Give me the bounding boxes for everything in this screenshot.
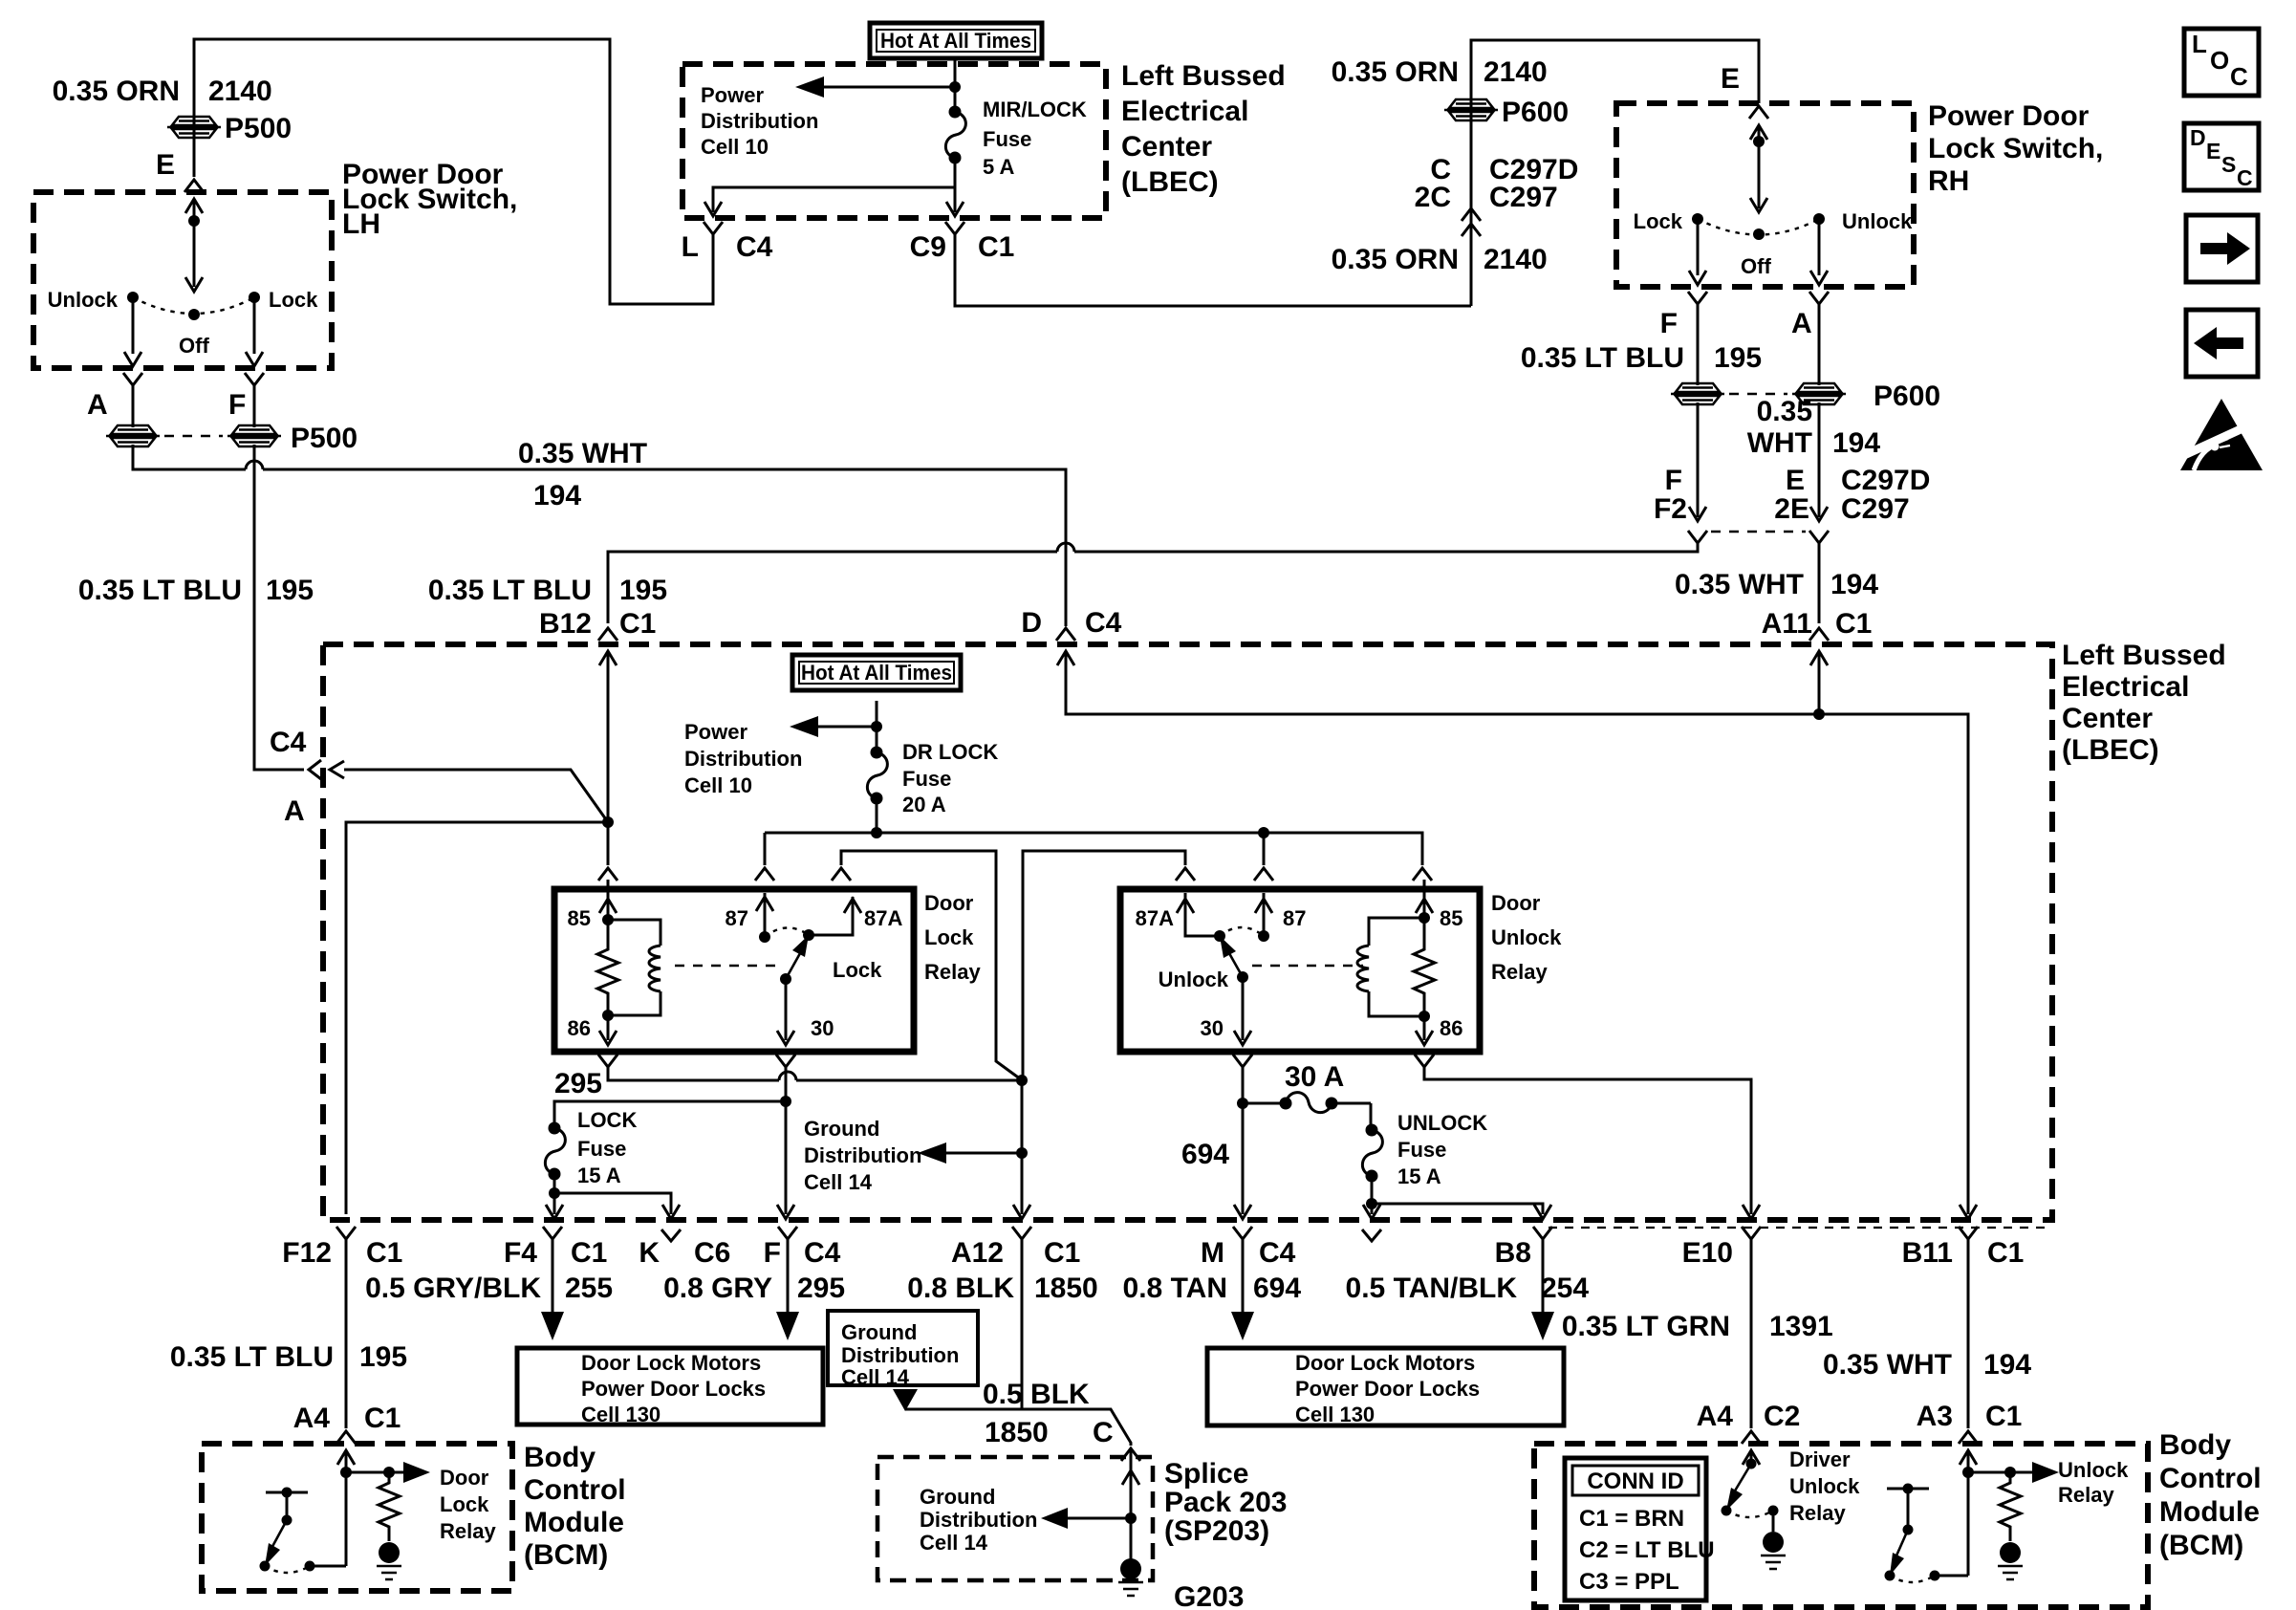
connector pin 87A (unlock relay) [1176, 868, 1195, 881]
svg-text:Distribution: Distribution [920, 1508, 1037, 1532]
svg-text:0.35 WHT: 0.35 WHT [1675, 569, 1804, 600]
svg-text:Body: Body [524, 1442, 596, 1473]
label 0.5 BLK / 1850 C [983, 1379, 1114, 1448]
svg-text:0.35 LT BLU: 0.35 LT BLU [1521, 342, 1684, 374]
svg-text:M: M [1201, 1237, 1224, 1269]
svg-text:85: 85 [1440, 906, 1462, 930]
unlock relay node (BCM) [1967, 1450, 1970, 1576]
wire M to right motor box [1242, 1239, 1245, 1312]
svg-text:Cell 10: Cell 10 [684, 773, 752, 797]
switch arm (unlock relay) [1237, 971, 1248, 983]
relay box Door Lock Relay [554, 889, 914, 1052]
svg-text:DR LOCK: DR LOCK [902, 740, 998, 764]
wire: 0.35 WHT 194 from A pin across page to D-C4 drop [133, 445, 1066, 626]
label Power Door Lock Switch, LH [342, 159, 517, 240]
svg-text:0.35: 0.35 [1757, 396, 1812, 427]
svg-text:195: 195 [266, 575, 314, 606]
svg-text:254: 254 [1541, 1273, 1589, 1304]
wire B11 down to BCM A3-C1 [1967, 1239, 1970, 1428]
svg-text:Distribution: Distribution [684, 747, 802, 771]
Left Bussed Electrical Center dashed box (main) [323, 644, 2052, 1220]
wire: Lock output down to box edge [253, 297, 256, 354]
svg-text:194: 194 [1983, 1349, 2031, 1381]
svg-text:Cell 130: Cell 130 [581, 1403, 661, 1426]
wire: LOCK fuse output to F4 and K [554, 1174, 671, 1214]
svg-text:Door Lock Motors: Door Lock Motors [1295, 1351, 1475, 1375]
connector pin A11 at LBEC top [1809, 628, 1829, 641]
svg-text:Cell 10: Cell 10 [701, 135, 769, 159]
connector C297 (F2) [1689, 507, 1706, 521]
connector pin A at LBEC left edge (C4) [309, 760, 321, 779]
svg-text:Fuse: Fuse [902, 767, 951, 791]
resistor (lock relay coil suppressor) [597, 920, 618, 1015]
svg-text:Off: Off [1741, 254, 1771, 278]
svg-text:Hot At All Times: Hot At All Times [801, 661, 952, 685]
wire: ORN vertical from P500 to LH switch E pin [193, 127, 196, 177]
connector pin F4/C1 [543, 1227, 562, 1239]
connector pin 87 (unlock relay) [1254, 868, 1273, 881]
svg-text:(LBEC): (LBEC) [1121, 166, 1219, 198]
svg-text:295: 295 [554, 1068, 602, 1099]
svg-text:B11: B11 [1902, 1237, 1953, 1269]
wire: RH lock signal 195 to B12 column [608, 543, 1698, 623]
dashed tie between P500 halves [164, 435, 223, 438]
fuse UNLOCK 15 A [1370, 1103, 1373, 1130]
connector pin B8 [1533, 1227, 1552, 1239]
label 0.35 LT BLU | 195 (RH lock wire) [1521, 342, 1762, 374]
svg-text:30 A: 30 A [1285, 1061, 1344, 1093]
Hot At All Times box (main) [792, 655, 961, 690]
label 0.35 WHT / 194 (left) [518, 438, 647, 511]
svg-text:MIR/LOCK: MIR/LOCK [983, 98, 1087, 121]
svg-text:L: L [682, 231, 699, 263]
coil (lock relay) [608, 920, 661, 1015]
svg-text:Door: Door [1491, 891, 1541, 915]
label Splice Pack 203 (SP203) [1164, 1458, 1287, 1547]
connector pin F12/C1 [336, 1227, 356, 1239]
svg-text:Cell 130: Cell 130 [1295, 1403, 1375, 1426]
svg-text:5 A: 5 A [983, 155, 1015, 179]
svg-text:1850: 1850 [985, 1417, 1049, 1448]
svg-text:255: 255 [565, 1273, 613, 1304]
connector pin C9 / C1 [945, 222, 964, 234]
svg-text:0.35 WHT: 0.35 WHT [518, 438, 647, 469]
svg-text:C: C [1093, 1417, 1114, 1448]
svg-text:F12: F12 [282, 1237, 332, 1269]
svg-text:C3 = PPL: C3 = PPL [1579, 1569, 1679, 1595]
label Body Control Module (BCM) right [2159, 1429, 2262, 1561]
svg-text:Door: Door [440, 1466, 489, 1490]
ground G203 [1118, 1558, 1143, 1596]
connector pin B11/C1 [1959, 1227, 1978, 1239]
svg-text:Hot At All Times: Hot At All Times [880, 29, 1031, 53]
svg-text:C1: C1 [571, 1237, 607, 1269]
LH switch common wire with junction and arrow to Off [193, 199, 196, 287]
svg-text:Fuse: Fuse [1397, 1138, 1446, 1162]
arrow: Power Distribution Cell 10 tap (main) [818, 726, 877, 729]
svg-text:WHT: WHT [1747, 427, 1812, 459]
LH switch Unlock contact [127, 292, 139, 303]
svg-text:C1: C1 [364, 1403, 401, 1434]
svg-text:Body: Body [2159, 1429, 2231, 1461]
svg-text:Power Door Locks: Power Door Locks [1295, 1377, 1480, 1401]
switch (BCM door lock relay) [266, 1491, 308, 1494]
svg-text:0.5 GRY/BLK: 0.5 GRY/BLK [365, 1273, 541, 1304]
svg-text:195: 195 [619, 575, 667, 606]
svg-text:30: 30 [811, 1016, 834, 1040]
fuse LOCK 15 A [545, 1122, 565, 1181]
svg-text:C1: C1 [1044, 1237, 1080, 1269]
svg-text:C4: C4 [1085, 607, 1122, 639]
svg-text:C: C [2230, 62, 2248, 91]
coil (unlock relay) [1369, 918, 1424, 1016]
label Power Door Lock Switch, RH [1928, 100, 2103, 197]
wire: RH unlock signal 194 down to A11 [1818, 543, 1821, 623]
svg-text:Relay: Relay [2058, 1483, 2114, 1507]
svg-text:15 A: 15 A [1397, 1164, 1441, 1188]
resistor to ground (BCM lock relay) [379, 1472, 400, 1541]
svg-text:(BCM): (BCM) [524, 1539, 608, 1571]
svg-text:(LBEC): (LBEC) [2062, 734, 2159, 766]
svg-text:Unlock: Unlock [2058, 1458, 2129, 1482]
label 0.5 GRY/BLK | 255 [365, 1273, 613, 1304]
wire contact to ground (driver unlock relay) [1772, 1511, 1775, 1532]
wire: D unlock signal down and across to B11 [1066, 651, 1968, 1214]
Splice Pack 203 dashed box [877, 1457, 1153, 1580]
svg-text:0.5 TAN/BLK: 0.5 TAN/BLK [1346, 1273, 1518, 1304]
junction node ground collector [1016, 1075, 1028, 1086]
svg-text:87: 87 [726, 906, 748, 930]
svg-text:C297: C297 [1489, 182, 1558, 213]
fuse MIR/LOCK 5 A [945, 106, 965, 164]
CONN ID table [1565, 1458, 1706, 1600]
connector C297 inline double chevron [1462, 208, 1481, 221]
svg-text:Fuse: Fuse [983, 127, 1031, 151]
connector P500 (A wire) [106, 425, 160, 446]
box Ground Distribution Cell 14 (mid) [828, 1311, 978, 1385]
svg-text:S: S [2221, 152, 2236, 177]
svg-text:E: E [1786, 465, 1805, 496]
Power Door Lock Switch LH dashed box [33, 192, 332, 368]
svg-text:Ground: Ground [804, 1117, 879, 1141]
svg-text:Unlock: Unlock [1842, 209, 1913, 233]
svg-text:O: O [2210, 46, 2229, 75]
wire to resistor and arrow [346, 1471, 405, 1474]
svg-text:2E: 2E [1774, 493, 1809, 525]
svg-text:E10: E10 [1682, 1237, 1733, 1269]
svg-text:C1: C1 [366, 1237, 402, 1269]
connector P500 (E wire) [167, 117, 221, 138]
pin F connector below RH box [1688, 292, 1707, 304]
svg-text:295: 295 [797, 1273, 845, 1304]
svg-text:0.35 LT BLU: 0.35 LT BLU [170, 1341, 334, 1373]
label 0.35 LT GRN | 1391 [1562, 1311, 1833, 1342]
svg-text:0.35 WHT: 0.35 WHT [1823, 1349, 1952, 1381]
svg-text:C297: C297 [1841, 493, 1910, 525]
LH switch Off contact [188, 309, 200, 320]
svg-text:E: E [2206, 139, 2220, 163]
svg-text:C4: C4 [270, 727, 307, 758]
svg-text:Control: Control [2159, 1463, 2262, 1494]
moving contact dashed arc (lock relay) [765, 927, 809, 937]
pin 85 entry and resistor (unlock relay) [1423, 880, 1426, 918]
dashed actuation link (unlock relay) [1252, 965, 1363, 968]
label 0.35 ORN | 2140 (RH lower) [1332, 244, 1548, 275]
svg-text:C4: C4 [804, 1237, 841, 1269]
svg-text:C4: C4 [736, 231, 773, 263]
wire: ORN riser to RH switch E [1471, 40, 1759, 306]
label A3 | C1 (right BCM) [1917, 1401, 2023, 1432]
wire: unlock relay 87A pickup [1023, 851, 1185, 1079]
svg-text:K: K [639, 1237, 660, 1269]
svg-text:Lock: Lock [833, 958, 882, 982]
arrow: Ground Distribution Cell 14 tap (SP203) [1125, 1512, 1137, 1524]
svg-text:P600: P600 [1502, 97, 1569, 128]
svg-text:Unlock: Unlock [1159, 968, 1229, 991]
svg-text:F: F [1660, 308, 1678, 339]
svg-text:(BCM): (BCM) [2159, 1530, 2243, 1561]
svg-text:Lock: Lock [924, 925, 974, 949]
connector pin K/C6 (stub) [661, 1229, 681, 1241]
junction node lock signal [602, 816, 614, 828]
svg-text:P600: P600 [1874, 381, 1940, 412]
svg-text:87: 87 [1283, 906, 1306, 930]
relay box Door Unlock Relay [1120, 889, 1480, 1052]
connector pin A4 into BCM right [1742, 1431, 1761, 1444]
svg-text:Distribution: Distribution [701, 109, 818, 133]
connector pin C into splice pack [1121, 1448, 1140, 1461]
wire: branch to LOCK fuse [554, 1101, 786, 1128]
svg-text:Lock: Lock [440, 1492, 489, 1516]
svg-text:Door: Door [924, 891, 974, 915]
wire hot feed to DR LOCK fuse [876, 701, 878, 752]
dashed actuation link (lock relay) [675, 965, 776, 968]
connector pin A12/C1 [1012, 1227, 1031, 1239]
label 0.5 TAN/BLK | 254 [1346, 1273, 1590, 1304]
connector pin B12 at LBEC top [598, 628, 617, 641]
svg-text:D: D [1021, 607, 1042, 639]
svg-text:86: 86 [1440, 1016, 1462, 1040]
box Door Lock Motors (left) [517, 1348, 823, 1425]
fuse DR LOCK 20 A [867, 747, 887, 805]
connector pin 85 (lock relay) [598, 868, 617, 881]
junction node lock fuse tap [780, 1096, 791, 1107]
wire: unlock relay 86 to E10 [1415, 1055, 1434, 1067]
svg-text:Power: Power [701, 83, 764, 107]
svg-text:CONN ID: CONN ID [1587, 1469, 1683, 1494]
svg-text:Distribution: Distribution [804, 1143, 921, 1167]
svg-text:C1: C1 [1835, 608, 1872, 640]
svg-text:Distribution: Distribution [841, 1343, 959, 1367]
junction node power distribution tap (main) [871, 721, 882, 732]
connector pin 87A (lock relay) [832, 868, 851, 881]
connector pin 85 (unlock relay) [1413, 868, 1432, 881]
label Door Lock Relay (BCM) [440, 1466, 496, 1543]
wire F to left motor box [787, 1239, 790, 1312]
svg-text:P500: P500 [225, 113, 292, 144]
pin A connector below RH box [1809, 292, 1829, 304]
wire: L output (joins ORN loop) [712, 234, 715, 304]
resistor to ground (BCM unlock relay) [2000, 1472, 2021, 1541]
wire A12 ground to splice pack [905, 1239, 1131, 1446]
label 0.35 LT BLU | 195 (F12 wire) [170, 1341, 407, 1373]
label Left Bussed Electrical Center (LBEC) main [2062, 640, 2226, 766]
wire: Unlock output down to box edge [132, 297, 135, 354]
svg-text:Relay: Relay [924, 960, 981, 984]
svg-text:G203: G203 [1174, 1581, 1244, 1610]
svg-text:RH: RH [1928, 165, 1969, 197]
svg-text:LOCK: LOCK [577, 1108, 637, 1132]
moving contact dashed arc (unlock relay) [1220, 927, 1264, 936]
svg-text:C6: C6 [694, 1237, 730, 1269]
svg-text:C1: C1 [1987, 1237, 2024, 1269]
label Unlock Relay (BCM) [2058, 1458, 2129, 1507]
label Ground Distribution Cell 14 (LBEC) [804, 1117, 921, 1194]
icon arrow left [2186, 310, 2258, 377]
svg-text:15 A: 15 A [577, 1164, 621, 1187]
switch wiper dashed arc LH [133, 297, 254, 314]
pin 30 exit [785, 979, 788, 1040]
connector P600 (A wire) [1792, 383, 1846, 404]
svg-text:C1: C1 [1985, 1401, 2022, 1432]
pin 87 contact (unlock) [1263, 893, 1266, 936]
junction node at power distribution tap [949, 81, 961, 93]
label 0.35 WHT | 194 stacked (RH unlock wire) [1747, 396, 1881, 459]
wire: ground collector down to A12 [1021, 1080, 1024, 1214]
svg-text:LH: LH [342, 208, 380, 240]
svg-text:2140: 2140 [1484, 244, 1548, 275]
svg-text:Relay: Relay [1491, 960, 1548, 984]
svg-text:C4: C4 [1259, 1237, 1296, 1269]
wire A4 into door lock relay node [345, 1450, 348, 1566]
labels F/F2 E/2E C297D/C297 [1654, 465, 1930, 525]
svg-text:C: C [2237, 165, 2253, 190]
label 0.35 WHT | 194 (B11 wire) [1823, 1349, 2031, 1381]
wire: C4-A arrow line to lock node [344, 770, 608, 822]
pin 87A contact and riser [803, 929, 814, 941]
label 0.35 LT BLU | 195 (B12 column) [428, 575, 667, 606]
wire: LH lock output F continues down [254, 445, 304, 770]
svg-text:C2 = LT BLU: C2 = LT BLU [1579, 1537, 1715, 1563]
svg-text:Electrical: Electrical [1121, 96, 1248, 127]
label A11 | C1 [1762, 608, 1873, 640]
svg-text:Cell 14: Cell 14 [804, 1170, 873, 1194]
wire: ORN 2140 feed loop from LBEC C4-L down to LH switch E [194, 39, 713, 304]
wire: lock node to BCM F12 column [346, 822, 608, 1214]
switch arm (lock relay) [780, 973, 791, 985]
wire: unlock relay 30 output [1233, 1055, 1252, 1067]
connector P500 (F wire) [227, 425, 281, 446]
svg-text:2140: 2140 [1484, 56, 1548, 88]
label 0.35 ORN | 2140 (LH) [53, 76, 272, 107]
svg-text:Lock: Lock [1634, 209, 1683, 233]
box Door Lock Motors (right) [1207, 1348, 1564, 1425]
svg-text:A: A [1791, 308, 1812, 339]
svg-text:86: 86 [568, 1016, 591, 1040]
svg-text:Door Lock Motors: Door Lock Motors [581, 1351, 761, 1375]
Body Control Module dashed box (left) [202, 1444, 512, 1591]
label 0.35 WHT | 194 (A11 column) [1675, 569, 1878, 600]
svg-text:L: L [2192, 30, 2207, 58]
svg-text:Electrical: Electrical [2062, 671, 2189, 703]
svg-text:Splice: Splice [1164, 1458, 1248, 1490]
svg-text:E: E [1721, 63, 1740, 95]
icon ESD warning triangle [2172, 399, 2264, 470]
pin F connector below LH box [245, 373, 264, 385]
svg-text:194: 194 [1832, 427, 1880, 459]
svg-text:F4: F4 [504, 1237, 537, 1269]
svg-text:Relay: Relay [1789, 1501, 1846, 1525]
svg-text:Module: Module [2159, 1496, 2260, 1528]
connector pin M/C4 [1233, 1227, 1252, 1239]
connector P600 (ORN wire) [1444, 99, 1498, 120]
svg-text:A3: A3 [1917, 1401, 1953, 1432]
svg-text:0.8 BLK: 0.8 BLK [907, 1273, 1014, 1304]
dashed tie between P600 halves [1729, 393, 1787, 396]
connector pin A3 into BCM right [1959, 1431, 1978, 1444]
label D | C4 [1021, 607, 1121, 639]
svg-text:F2: F2 [1654, 493, 1687, 525]
wire B8 to right motor box [1542, 1239, 1545, 1312]
pin 85 entry arrow [607, 880, 610, 920]
svg-text:Relay: Relay [440, 1519, 496, 1543]
wires to P600 row [1698, 304, 1819, 385]
svg-text:0.35 ORN: 0.35 ORN [1332, 56, 1459, 88]
label 0.35 LT BLU | 195 (LH lock wire) [78, 575, 314, 606]
svg-text:87A: 87A [1136, 906, 1174, 930]
Body Control Module dashed box (right) [1534, 1444, 2148, 1607]
switch wiper dashed arc RH [1698, 219, 1819, 235]
arrow: Ground Distribution Cell 14 tap (LBEC) [946, 1152, 1022, 1155]
triangle tap Ground Distribution Cell 14 (mid) [893, 1389, 918, 1411]
svg-text:P500: P500 [291, 423, 357, 454]
svg-text:0.35 LT GRN: 0.35 LT GRN [1562, 1311, 1730, 1342]
svg-text:0.35 LT BLU: 0.35 LT BLU [428, 575, 592, 606]
wires down to C297 connectors [1698, 402, 1819, 517]
connector pin E10 [1742, 1227, 1761, 1239]
label Body Control Module (BCM) left [524, 1442, 626, 1571]
svg-text:B12: B12 [539, 608, 592, 640]
label 0.8 GRY | 295 [663, 1273, 845, 1304]
svg-text:Pack 203: Pack 203 [1164, 1487, 1287, 1518]
connector C297 (2E) [1810, 507, 1828, 521]
label A4 | C1 (left BCM) [293, 1403, 401, 1434]
svg-text:F: F [228, 389, 246, 421]
pin A connector below LH box [123, 373, 142, 385]
label Driver Unlock Relay [1789, 1447, 1860, 1525]
svg-text:694: 694 [1253, 1273, 1301, 1304]
pin 87 contact [764, 893, 767, 937]
label Left Bussed Electrical Center (LBEC) top [1121, 60, 1286, 198]
driver unlock relay switch (BCM) [1750, 1450, 1753, 1464]
wire inside splice pack down to ground [1130, 1448, 1133, 1560]
svg-text:0.8 TAN: 0.8 TAN [1123, 1273, 1227, 1304]
svg-text:694: 694 [1181, 1139, 1229, 1170]
svg-text:Left Bussed: Left Bussed [1121, 60, 1286, 92]
svg-text:F: F [764, 1237, 781, 1269]
svg-text:194: 194 [533, 480, 581, 511]
svg-text:2C: 2C [1415, 182, 1451, 213]
svg-text:A11: A11 [1762, 608, 1812, 640]
svg-text:A: A [87, 389, 108, 421]
label B12 | C1 [539, 608, 656, 640]
svg-text:Control: Control [524, 1474, 626, 1506]
connector stub (unlock fuse spare) [1362, 1229, 1381, 1241]
svg-text:Center: Center [1121, 131, 1212, 163]
connector pin 86 below lock relay [598, 1055, 617, 1067]
svg-text:Fuse: Fuse [577, 1137, 626, 1161]
svg-text:Cell 14: Cell 14 [841, 1365, 910, 1389]
